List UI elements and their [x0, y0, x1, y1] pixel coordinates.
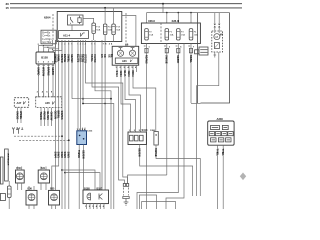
- svg-text:A35: A35: [45, 101, 50, 105]
- dashed boundary right of 6264: [125, 13, 127, 46]
- wire A35 pin3 down: [47, 108, 49, 126]
- svg-text:6: 6: [47, 47, 48, 49]
- wire A11-4 pin elbow to B158 pin2: [44, 40, 56, 52]
- svg-text:GN/GE: GN/GE: [15, 111, 19, 120]
- pump check valve: [214, 43, 219, 49]
- svg-text:GE/A: GE/A: [127, 71, 131, 77]
- tall box with vertical text: [5, 149, 9, 181]
- decorative diamond: [240, 173, 246, 181]
- wire B30 pins: [18, 167, 22, 191]
- svg-text:VERTEILER: VERTEILER: [6, 153, 8, 166]
- wire pin x102 down to B187: [101, 40, 103, 190]
- svg-text:BR/WS: BR/WS: [46, 67, 50, 76]
- wire A6 pin2 to S413: [121, 65, 131, 132]
- svg-text:RD/A: RD/A: [131, 71, 135, 77]
- wire into pump box 2: [218, 27, 220, 33]
- resistor component bottom left: [8, 181, 10, 186]
- svg-text:F+=15gn: F+=15gn: [42, 39, 52, 41]
- wire pin x92 nested route right: [92, 40, 125, 184]
- test plug fork 2: [17, 127, 23, 133]
- svg-text:SW/5: SW/5: [67, 152, 71, 159]
- fuse F3 in X28-III: [177, 29, 181, 40]
- svg-text:SW/3: SW/3: [63, 152, 67, 159]
- stub into ECU pin4: [84, 128, 86, 131]
- wire A6 pin5 to relay 1308: [133, 65, 156, 131]
- wire A6 pin3 to S413: [125, 65, 136, 132]
- wire bundle vertical 5: [68, 40, 70, 209]
- wire A6 pin6 stub: [136, 65, 138, 72]
- svg-text:2: 2: [38, 44, 39, 46]
- wire fuse F4 elbow to A230: [191, 103, 201, 105]
- pin numbers above ECU: [77, 128, 87, 131]
- svg-text:A37: A37: [17, 101, 22, 105]
- fuse F13: [92, 23, 96, 34]
- small connector box x196: [195, 50, 199, 54]
- wire bundle elbow to B188 top 1: [61, 169, 63, 171]
- dashed wire fork1 to bundle: [14, 135, 61, 137]
- A230 cell row1: [211, 125, 220, 129]
- svg-text:X28-II: X28-II: [148, 19, 155, 23]
- wire B158 pin1 down to A35: [38, 64, 40, 97]
- wire ECU out 1: [78, 145, 80, 210]
- wire A37 pin2 down: [20, 107, 22, 123]
- value table box: [41, 30, 56, 44]
- connector pair on pump wire2: [218, 24, 220, 28]
- svg-text:TN/GE: TN/GE: [77, 150, 81, 158]
- wire A11-4 pin elbow to B158 pin1: [39, 40, 53, 52]
- wire F2 corner route: [128, 175, 167, 184]
- fuse F10: [103, 24, 107, 35]
- wire pump out 2: [197, 52, 219, 196]
- wire pin x78 to blue box: [77, 40, 79, 131]
- fuse F2 in X28-III: [165, 29, 169, 40]
- wire bundle vertical 4: [64, 40, 66, 209]
- svg-text:RD/BL: RD/BL: [189, 55, 193, 63]
- wire fuse F10 down to B187: [104, 35, 106, 190]
- wire bundle vertical 2 with bend to B35: [52, 40, 59, 190]
- svg-text:S413: S413: [142, 129, 148, 132]
- svg-text:SW/GE: SW/GE: [154, 148, 158, 157]
- ignition coil unit box: [112, 46, 139, 65]
- junction dot on 15 rail at x105: [104, 7, 106, 9]
- wire 15 rail to F10: [104, 8, 106, 24]
- knock sensor glyph: [99, 194, 102, 200]
- svg-text:50A: 50A: [96, 29, 100, 32]
- wire ECU out 2: [83, 145, 85, 191]
- wire A37 pin1 down: [17, 107, 19, 123]
- svg-text:50A: 50A: [116, 29, 120, 32]
- wire B31 pins: [41, 167, 46, 191]
- wire 30 rail: [10, 3, 242, 5]
- switch unit box inside 6264: [68, 15, 84, 25]
- wire fuse F3 down: [177, 44, 179, 194]
- wire B158 pin3 down to A35: [47, 64, 49, 97]
- sensor unit A37 (dashed): [14, 98, 28, 108]
- wire A35 pin1 down: [40, 108, 42, 126]
- fuse F1 in X28-II: [145, 29, 149, 40]
- A230 cell row2: [209, 132, 214, 136]
- svg-text:RD/WS: RD/WS: [144, 55, 148, 64]
- stubs above A35: [39, 93, 53, 97]
- shielded component K: [123, 184, 125, 187]
- test plug fork 1: [12, 127, 18, 133]
- fuel pump box (dashed): [212, 31, 223, 52]
- wire B35 pins down: [52, 205, 56, 209]
- wire B158 pin4 down to A35: [52, 64, 54, 97]
- svg-text:Gn=70Ar: Gn=70Ar: [42, 41, 51, 44]
- svg-text:GE/GN: GE/GN: [70, 54, 74, 62]
- svg-text:RD/GE: RD/GE: [42, 112, 46, 120]
- stub into ECU pin3: [82, 128, 84, 131]
- wire A35 pin4 down: [51, 108, 53, 126]
- wire pin x83 route with junctions: [83, 40, 114, 209]
- wire switch unit to A11-4: [71, 25, 73, 31]
- wire into pump box 1: [214, 27, 216, 33]
- wire A11-4 pin elbow to B158 pin3: [48, 40, 58, 52]
- svg-text:SW/GE: SW/GE: [165, 55, 169, 64]
- wire F13 down: [93, 34, 95, 41]
- wire bundle vertical 3: [61, 40, 63, 209]
- wire pin x95 route down: [95, 40, 111, 209]
- junction dot feed bus x191: [190, 12, 192, 14]
- coil module A26: [115, 58, 138, 63]
- svg-text:10A: 10A: [170, 33, 174, 36]
- connector pins below X28: [144, 46, 193, 53]
- temp sensor glyph: [87, 193, 91, 200]
- wire A35 pin2 down: [44, 108, 46, 126]
- svg-text:GE/RD: GE/RD: [51, 67, 55, 75]
- info label box right: [199, 47, 208, 55]
- junction dot bundle5 with dashed link: [68, 139, 70, 141]
- fuse F18: [112, 24, 116, 35]
- wire switch unit to fuse F13: [83, 18, 94, 23]
- ECU highlighted blue box: [77, 131, 87, 145]
- wire pump feed 1: [214, 13, 216, 24]
- unit A11-4: [59, 31, 89, 39]
- relay box 6264 outline: [57, 12, 122, 42]
- svg-text:6264: 6264: [44, 16, 51, 20]
- svg-text:TY/EL: TY/EL: [221, 149, 225, 157]
- fuse box X28 outline: [141, 23, 200, 44]
- svg-text:C+=40s: C+=40s: [42, 36, 51, 38]
- wire F3 corner route: [137, 193, 178, 210]
- wire A11-4 pin elbow to B158 pin4: [53, 40, 62, 52]
- svg-text:WS/SW: WS/SW: [42, 67, 46, 77]
- wire B36 pins: [29, 186, 34, 209]
- wire A230 out 2: [222, 145, 224, 209]
- dashed divider X28: [160, 23, 162, 44]
- wire fuse F18 stub: [113, 35, 115, 42]
- svg-text:BL/A: BL/A: [123, 71, 127, 77]
- small box bottom left corner: [0, 194, 5, 201]
- connector pair on pump wire1: [214, 24, 216, 28]
- wire drop to fuse F3: [177, 13, 179, 23]
- tall label box left: [0, 157, 3, 184]
- svg-text:B+=45s: B+=45s: [42, 32, 51, 34]
- wire pump out 1: [214, 52, 217, 58]
- pump motor circle: [214, 34, 220, 40]
- wire fusebox feed bus: [147, 12, 230, 14]
- wire B188 bottom pins: [87, 204, 105, 209]
- wire 1308 out: [156, 145, 200, 196]
- svg-text:SW/A: SW/A: [115, 71, 119, 78]
- svg-text:SW/WS: SW/WS: [60, 111, 64, 120]
- svg-text:GN/A: GN/A: [119, 71, 123, 78]
- wire fuse F1 down: [146, 44, 148, 210]
- wire bundle elbow to B188 top 2: [64, 172, 66, 174]
- wire bundle6 branch route: [72, 98, 111, 100]
- S413 contact 2: [135, 135, 139, 141]
- svg-text:GN/SW: GN/SW: [49, 112, 53, 121]
- wire 30 rail drop to fusebox feed: [162, 4, 164, 13]
- wire bundle vertical 6 (diverts right at y98.7): [71, 40, 73, 99]
- colour labels on ECU feed wires: [76, 54, 114, 64]
- svg-text:GN/RD: GN/RD: [37, 67, 41, 75]
- wire fuse F4 down: [190, 44, 192, 104]
- wire drop to fuse F2: [166, 13, 168, 23]
- switch glyph: [71, 17, 74, 24]
- coil tower 2: [131, 48, 135, 50]
- right enclosure box: [198, 13, 230, 103]
- sensor box B188/B187: [83, 190, 109, 204]
- svg-text:A230: A230: [217, 117, 224, 121]
- wire fuse F2 down: [166, 44, 168, 176]
- S413 contact 1: [130, 135, 134, 141]
- A230 cell row3: [211, 138, 216, 142]
- svg-text:1313: 1313: [87, 131, 93, 133]
- fuse F4 in X28-III: [189, 29, 193, 40]
- wire corner route y195: [140, 195, 157, 209]
- dashed wire fork2 to bundle: [19, 139, 68, 141]
- svg-text:WS/BL: WS/BL: [19, 111, 23, 120]
- junction dot feed bus x166.8: [166, 12, 168, 14]
- wire x184 route: [166, 44, 184, 210]
- coil tower 1: [119, 48, 123, 50]
- junction dot on 30 rail at x163: [162, 3, 164, 5]
- connector B158: [36, 52, 55, 64]
- pin numbers under 6264: [55, 43, 113, 46]
- svg-text:A11-4: A11-4: [63, 33, 71, 37]
- svg-text:BL/WS: BL/WS: [46, 112, 50, 121]
- svg-text:GE/SW: GE/SW: [81, 150, 85, 159]
- svg-text:BR/GE: BR/GE: [63, 54, 67, 62]
- resistor glyph: [78, 18, 81, 23]
- S413 contact 3: [140, 135, 144, 141]
- wire pin x80.5 to blue box: [80, 40, 82, 131]
- svg-text:GE/RD: GE/RD: [176, 55, 180, 63]
- wire pump feed 2: [218, 13, 220, 24]
- svg-text:15A: 15A: [149, 33, 153, 36]
- svg-text:A26: A26: [122, 60, 127, 63]
- wire B158 pin2 down to A35: [43, 64, 45, 97]
- svg-text:GE/SW: GE/SW: [138, 148, 142, 157]
- wire S413 out: [140, 145, 193, 197]
- svg-text:TN/SW: TN/SW: [39, 112, 43, 121]
- wire bundle vertical 1: [55, 40, 57, 190]
- wire A230 out 1: [217, 145, 219, 209]
- wire A6 pin1 stub: [116, 65, 118, 72]
- svg-text:15: 15: [6, 6, 10, 10]
- control unit A35 (dashed): [36, 97, 62, 108]
- svg-text:X28-III: X28-III: [172, 19, 180, 23]
- svg-text:TY/EL: TY/EL: [216, 149, 220, 157]
- wire A6 pin4 to S413: [129, 65, 141, 132]
- wire pin x85.5 nested route to component K: [86, 40, 128, 184]
- wire 15 rail: [10, 7, 242, 9]
- junction dot feed bus x178.3: [178, 12, 180, 14]
- junction dot bundle3 with dashed link: [61, 135, 63, 137]
- svg-text:8: 8: [52, 49, 53, 51]
- wire corner route y201.6: [142, 202, 176, 209]
- svg-text:15A: 15A: [181, 33, 185, 36]
- wire drop to fuse X28-II: [146, 13, 148, 23]
- svg-text:B158: B158: [41, 56, 48, 60]
- wire 15 rail to F18: [113, 8, 115, 24]
- wire drop to fuse F4: [190, 13, 192, 23]
- dashed boundary left of 6264: [52, 14, 54, 40]
- wire 6264 to coil unit feed: [122, 16, 136, 47]
